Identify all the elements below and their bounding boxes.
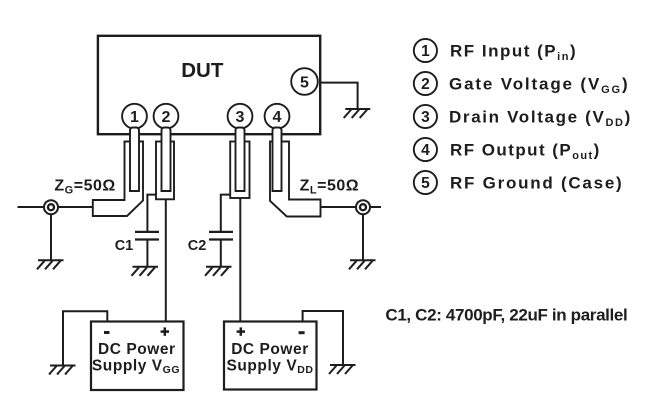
ground (J1): [37, 260, 64, 269]
connector J1 (RF input): [44, 200, 58, 214]
svg-text:2: 2: [162, 109, 171, 126]
wire output trace to connector J2: [321, 206, 357, 208]
wire pin5 to ground: [321, 83, 358, 109]
svg-text:5: 5: [421, 175, 430, 192]
svg-text:3: 3: [236, 109, 245, 126]
svg-text:C1, C2: 4700pF, 22uF in parall: C1, C2: 4700pF, 22uF in parallel: [385, 305, 627, 324]
wire VDD - terminal to ground: [303, 311, 343, 365]
pin 3 lead: [236, 128, 245, 192]
microstrip trace input (pin 1 arm): [93, 142, 143, 217]
wire connector J2 to ground: [362, 214, 364, 260]
microstrip trace pin 2 pad: [156, 142, 174, 200]
pin circle 1: [122, 104, 147, 129]
ground (VDD -): [329, 365, 356, 374]
svg-text:ZG=50Ω: ZG=50Ω: [54, 178, 115, 197]
DC power supply VGG box: [91, 322, 184, 391]
label VDD supply minus: [299, 331, 305, 334]
wire C1 to ground: [146, 241, 148, 267]
legend circle 2: [414, 72, 437, 95]
DUT box U1: [98, 36, 320, 134]
ground (C1): [132, 267, 159, 276]
wire node drain to C2: [221, 195, 230, 231]
label VGG supply minus: [104, 331, 110, 334]
ground (VGG -): [49, 366, 76, 375]
pin circle 5: [291, 68, 318, 95]
capacitor C2: [209, 232, 233, 240]
svg-text:C1: C1: [115, 238, 134, 254]
svg-text:C2: C2: [188, 238, 207, 254]
wire node gate to C1: [147, 195, 156, 231]
svg-text:3: 3: [421, 109, 430, 126]
pin circle 3: [228, 104, 253, 129]
wire right stub: [370, 206, 381, 208]
connector J2 (RF output): [356, 200, 370, 214]
pin 2 lead: [162, 128, 171, 192]
legend circle 5: [414, 171, 437, 194]
legend circle 3: [414, 105, 437, 128]
ground (C2): [205, 267, 232, 276]
legend circle 4: [414, 138, 437, 161]
svg-text:DUT: DUT: [181, 59, 224, 82]
wire pin2 pad to VGG supply +: [165, 199, 167, 321]
svg-text:DC Power: DC Power: [231, 341, 309, 358]
svg-text:1: 1: [421, 43, 430, 60]
pin circle 4: [265, 104, 290, 129]
wire pin3 pad to VDD supply +: [239, 198, 241, 322]
svg-text:2: 2: [421, 76, 430, 93]
legend circle 1: [414, 39, 437, 62]
microstrip trace output (pin 4 arm): [270, 142, 321, 217]
wire input stub left edge: [18, 206, 45, 208]
wire C2 to ground: [220, 241, 222, 267]
wire VGG - terminal to ground: [63, 311, 107, 365]
label VGG supply plus: [161, 327, 169, 335]
svg-text:ZL=50Ω: ZL=50Ω: [300, 178, 359, 197]
pin circle 2: [154, 104, 179, 129]
svg-text:4: 4: [273, 109, 282, 126]
svg-text:DC Power: DC Power: [98, 341, 176, 358]
svg-text:5: 5: [300, 75, 309, 92]
svg-text:RF Ground (Case): RF Ground (Case): [450, 173, 623, 192]
microstrip trace pin 3 pad: [230, 142, 249, 199]
svg-text:4: 4: [421, 142, 430, 159]
capacitor C1: [135, 232, 159, 240]
pin 1 lead: [130, 128, 139, 192]
wire connector to input trace: [58, 206, 93, 208]
ground (pin 5 / case): [344, 109, 371, 118]
ground (J2): [349, 260, 376, 269]
svg-text:1: 1: [130, 109, 139, 126]
wire connector J1 to ground: [50, 214, 52, 260]
DC power supply VDD box: [224, 322, 317, 390]
label VDD supply plus: [237, 327, 245, 335]
pin 4 lead: [273, 128, 282, 192]
svg-text:Drain Voltage (VDD): Drain Voltage (VDD): [449, 107, 632, 129]
